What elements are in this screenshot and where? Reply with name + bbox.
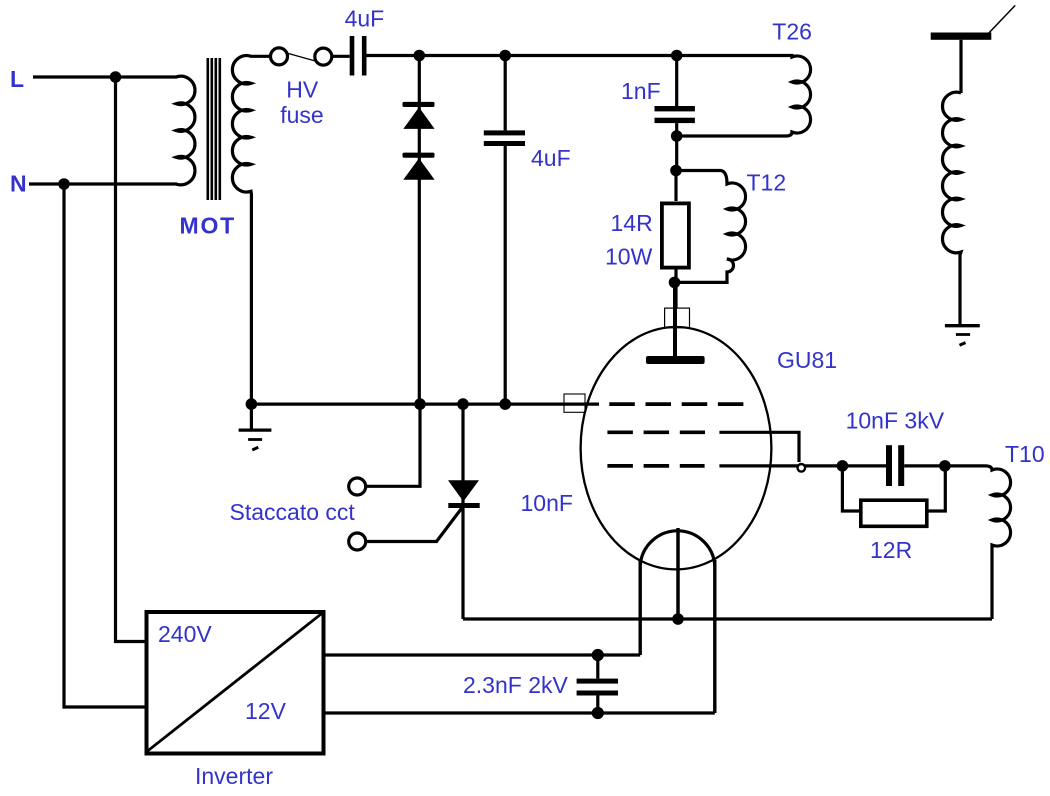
- svg-text:4uF: 4uF: [345, 6, 385, 32]
- wire filament left leg: [639, 560, 642, 655]
- svg-text:MOT: MOT: [180, 213, 237, 239]
- node junction thyristor branch: [459, 400, 467, 408]
- svg-text:12V: 12V: [245, 698, 287, 724]
- staccato terminal bottom: [349, 533, 366, 550]
- thyristor Q1: [448, 480, 479, 501]
- inductor T26: [677, 56, 811, 137]
- node junction above 14R: [672, 166, 680, 174]
- node junction cap branch: [501, 51, 509, 59]
- svg-text:2.3nF 2kV: 2.3nF 2kV: [463, 672, 568, 698]
- staccato terminal top: [349, 478, 366, 495]
- ground (left): [250, 404, 253, 429]
- tube screen grid (dashed): [607, 430, 705, 434]
- svg-text:fuse: fuse: [280, 102, 323, 128]
- tube grid 3 (dashed): [607, 464, 704, 468]
- antenna whip: [988, 5, 1015, 34]
- node junction L: [111, 73, 119, 81]
- wire cap right to T10: [904, 464, 945, 467]
- node junction 1nF top: [673, 51, 681, 59]
- node junction ground stub: [247, 400, 255, 408]
- capacitor C5 2.3nF 2kV: [596, 655, 599, 713]
- node open circle grid tap: [798, 464, 806, 472]
- wire screen grid tap: [719, 432, 799, 462]
- inductor antenna coil: [942, 92, 961, 324]
- svg-text:10W: 10W: [605, 243, 653, 269]
- antenna top plate: [931, 33, 992, 40]
- wire filament right leg: [713, 560, 716, 713]
- node junction below 14R: [670, 278, 678, 286]
- svg-text:1nF: 1nF: [621, 78, 661, 104]
- node junction cap right: [941, 462, 949, 470]
- fuse wire HV fuse: [286, 53, 317, 62]
- tube control grid (dashed): [609, 402, 748, 406]
- svg-text:T26: T26: [772, 19, 812, 45]
- node junction smoothing bottom: [501, 400, 509, 408]
- node junction 2.3nF bottom: [593, 709, 602, 718]
- capacitor C2 4uF (smoothing): [484, 130, 525, 135]
- inverter box: [147, 612, 324, 754]
- svg-text:240V: 240V: [158, 621, 212, 647]
- inductor T12: [674, 171, 746, 283]
- wire inverter top output: [324, 653, 640, 656]
- node junction cap left: [838, 462, 846, 470]
- node junction staccato branch: [416, 400, 424, 408]
- wire N lead: [29, 182, 177, 185]
- node junction diode branch: [415, 51, 423, 59]
- wire top bus: [367, 54, 677, 57]
- wire grid3 to cap: [719, 464, 886, 467]
- node junction below 1nF: [673, 132, 681, 140]
- svg-text:GU81: GU81: [777, 347, 837, 373]
- wire filament center tap: [676, 528, 680, 619]
- tube anode plate: [646, 356, 705, 364]
- svg-text:N: N: [10, 171, 27, 197]
- fuse terminal circle right: [315, 48, 332, 65]
- svg-text:10nF: 10nF: [521, 490, 573, 516]
- node junction 2.3nF top: [593, 651, 602, 660]
- wire ground bus: [251, 403, 599, 406]
- diode D1: [403, 102, 435, 107]
- fuse terminal circle left: [271, 48, 288, 65]
- node junction N: [60, 180, 68, 188]
- wire anode lead: [673, 282, 677, 356]
- diode D2: [403, 153, 435, 158]
- resistor R2 12R: [842, 466, 859, 511]
- capacitor C4 10nF 3kV: [886, 445, 892, 486]
- wire L to inverter 240V input: [116, 77, 147, 642]
- transformer MOT secondary winding: [232, 56, 271, 405]
- wire diode branch: [418, 56, 421, 405]
- transformer MOT core: [208, 58, 220, 200]
- node junction filament center tap: [674, 615, 682, 623]
- wire L lead: [33, 75, 177, 78]
- wire cathode bus: [463, 617, 992, 620]
- svg-text:14R: 14R: [611, 210, 653, 236]
- svg-text:T10: T10: [1005, 441, 1045, 467]
- resistor R1 14R 10W: [674, 171, 677, 202]
- svg-text:10nF 3kV: 10nF 3kV: [846, 408, 945, 434]
- wire inverter bottom output: [324, 711, 715, 714]
- transformer MOT primary winding: [176, 76, 195, 185]
- tube filament dome: [640, 531, 715, 566]
- wire smoothing cap branch: [504, 56, 507, 405]
- wire staccato top: [366, 404, 420, 486]
- inductor T10: [945, 466, 1011, 619]
- svg-text:L: L: [10, 66, 24, 92]
- tube top cap connector: [665, 308, 690, 328]
- wire N to inverter 12V input: [64, 184, 147, 707]
- wire antenna stem: [959, 40, 962, 93]
- svg-text:T12: T12: [747, 170, 787, 196]
- tube GU81 envelope: [581, 327, 772, 569]
- svg-text:Staccato cct: Staccato cct: [230, 499, 356, 525]
- wire thyristor branch: [461, 404, 464, 619]
- svg-text:4uF: 4uF: [531, 145, 571, 171]
- svg-text:12R: 12R: [870, 537, 912, 563]
- ground (right): [945, 324, 980, 327]
- capacitor C1 4uF (top): [350, 36, 355, 76]
- svg-text:HV: HV: [286, 77, 319, 103]
- capacitor C3 1nF: [675, 56, 678, 171]
- wire staccato gate: [366, 507, 463, 542]
- wire fuse to C1: [331, 55, 350, 58]
- tube grid cap connector (left): [564, 394, 585, 412]
- svg-text:Inverter: Inverter: [195, 763, 273, 789]
